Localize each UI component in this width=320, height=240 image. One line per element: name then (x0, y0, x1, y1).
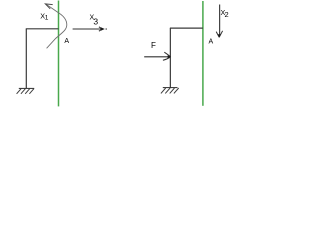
svg-text:A: A (209, 39, 214, 46)
force arrow X3 (73, 28, 102, 30)
arrowhead X2 (216, 31, 222, 38)
right release line (green) (202, 1, 204, 106)
right frame horizontal member (170, 27, 203, 29)
arrowhead X3 (99, 27, 102, 31)
left support hatching (17, 89, 34, 94)
left frame vertical member (25, 29, 27, 88)
svg-text:2: 2 (225, 10, 229, 19)
right support hatching (161, 88, 179, 93)
svg-text:F: F (151, 41, 156, 50)
left frame horizontal member (26, 28, 59, 30)
force arrow F (144, 56, 169, 58)
svg-text:1: 1 (45, 15, 49, 22)
moment arrow X1 (curved) (45, 4, 66, 48)
arrowhead F (163, 52, 171, 60)
left fixed support ground line (19, 87, 34, 89)
right fixed support ground line (163, 87, 178, 89)
svg-text:3: 3 (93, 16, 98, 26)
svg-text:A: A (64, 38, 69, 45)
left release line (green) (58, 1, 60, 107)
force arrow X2 (219, 5, 221, 35)
moment arrow X1 head (45, 4, 52, 9)
right frame vertical member (169, 28, 171, 87)
